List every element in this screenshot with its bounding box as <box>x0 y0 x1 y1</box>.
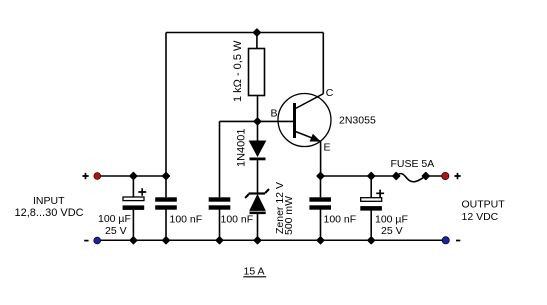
wire C5 bottom lead <box>370 210 372 240</box>
wire C2 top lead <box>165 176 167 197</box>
wire bottom minus rail <box>97 239 446 241</box>
svg-text:15 A: 15 A <box>244 266 265 278</box>
wire input plus rail <box>97 175 166 177</box>
svg-text:1 kΩ - 0,5 W: 1 kΩ - 0,5 W <box>232 40 244 102</box>
wire C5 top lead <box>370 176 372 198</box>
svg-text:E: E <box>324 142 331 154</box>
junction node C5 output rail <box>368 173 375 180</box>
capacitor C3 100nF <box>209 197 254 225</box>
capacitor C4 100nF <box>309 197 356 225</box>
svg-text:100 µF: 100 µF <box>375 214 408 226</box>
fuse F1 5A <box>391 158 435 182</box>
svg-text:B: B <box>271 108 278 120</box>
resistor R1 1 kOhm 0,5 W <box>232 40 265 102</box>
svg-text:100 nF: 100 nF <box>324 214 357 226</box>
svg-text:500 mW: 500 mW <box>283 196 295 235</box>
svg-text:100 nF: 100 nF <box>221 214 254 226</box>
junction node C2 plus rail corner <box>163 173 170 180</box>
wire base horizontal <box>220 120 294 122</box>
wire zener to ground rail <box>257 214 259 241</box>
wire emitter vertical <box>320 141 322 176</box>
terminal input plus <box>82 173 100 180</box>
wire collector vertical <box>322 33 324 94</box>
capacitor C5 100uF 25V electrolytic <box>360 190 408 237</box>
wire output rail <box>321 175 397 177</box>
junction node fuse right <box>422 173 429 180</box>
wire fuse to output terminal <box>426 175 442 177</box>
svg-text:100 µF: 100 µF <box>98 213 131 225</box>
svg-text:100 nF: 100 nF <box>170 214 203 226</box>
junction node C1 plus rail <box>130 173 137 180</box>
svg-text:1N4001: 1N4001 <box>236 128 248 167</box>
label INPUT <box>15 195 84 219</box>
junction node C4 ground <box>317 237 324 244</box>
junction node emitter rail <box>317 173 324 180</box>
capacitor C2 100nF <box>155 197 202 225</box>
junction node fuse left <box>393 173 400 180</box>
svg-text:12,8...30 VDC: 12,8...30 VDC <box>15 207 84 219</box>
junction node B base <box>254 118 261 125</box>
svg-text:INPUT: INPUT <box>33 195 65 207</box>
wire base branch vertical to C3 <box>219 121 221 197</box>
label OUTPUT <box>462 199 506 224</box>
junction node C1 ground <box>130 237 137 244</box>
wire C1 bottom lead <box>132 210 134 241</box>
junction node C5 ground <box>368 237 375 244</box>
junction node C2 ground <box>163 237 170 244</box>
svg-text:C: C <box>326 87 334 99</box>
terminal output minus <box>442 237 460 244</box>
terminal output plus <box>442 172 461 179</box>
transistor Q1 2N3055 <box>271 87 376 154</box>
wire resistor bottom lead to diode <box>257 95 259 142</box>
svg-text:25 V: 25 V <box>381 225 403 237</box>
junction node C3 ground <box>216 237 223 244</box>
zener diode ZD1 12 V 500 mW <box>245 182 295 235</box>
wire C4 bottom lead <box>320 210 322 241</box>
wire top horizontal <box>166 32 323 34</box>
svg-text:25 V: 25 V <box>105 225 127 237</box>
wire left vertical <box>165 33 167 177</box>
label 15 A rating <box>243 266 266 278</box>
wire C1 top lead <box>132 176 134 197</box>
svg-text:12 VDC: 12 VDC <box>462 211 499 223</box>
diode D1 1N4001 <box>236 128 266 167</box>
svg-text:OUTPUT: OUTPUT <box>462 199 506 211</box>
svg-text:2N3055: 2N3055 <box>339 115 376 127</box>
terminal input minus <box>84 237 100 244</box>
wire diode to zener <box>257 160 259 193</box>
junction node zener ground <box>254 237 261 244</box>
svg-text:FUSE 5A: FUSE 5A <box>391 158 435 170</box>
wire resistor top lead <box>256 33 258 49</box>
wire C2 bottom lead <box>165 210 167 241</box>
wire C4 top lead <box>320 176 322 197</box>
capacitor C1 100uF 25V electrolytic <box>98 188 146 237</box>
junction node top resistor tap <box>253 29 260 36</box>
wire C3 bottom lead <box>219 210 221 241</box>
